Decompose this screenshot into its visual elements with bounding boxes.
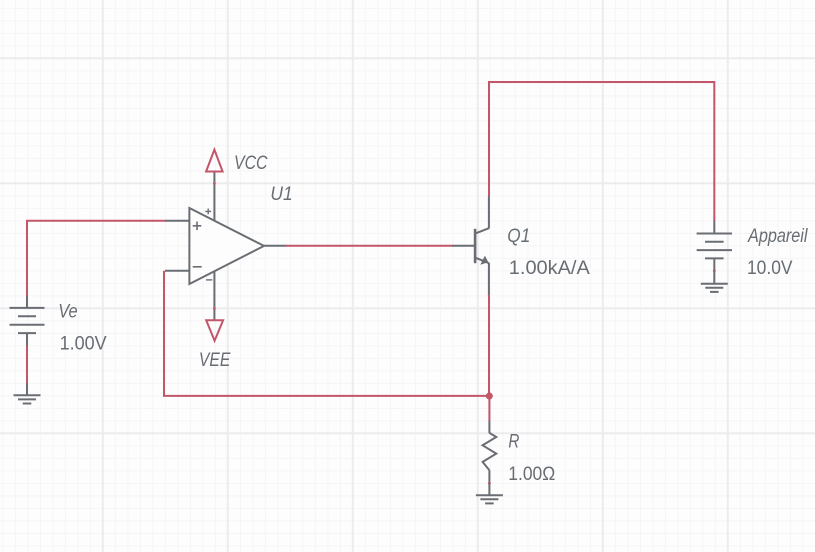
ground below Ve: [14, 383, 41, 403]
svg-text:1.00V: 1.00V: [60, 333, 107, 354]
svg-text:R: R: [508, 432, 519, 453]
node resistor bottom terminal: [488, 482, 491, 485]
svg-text:U1: U1: [270, 184, 292, 205]
transistor Q1: [452, 196, 489, 296]
svg-text:VCC: VCC: [234, 153, 268, 174]
svg-text:10.0V: 10.0V: [747, 258, 793, 279]
wire op-amp output to Q1 base: [286, 245, 453, 247]
power flag VEE: [206, 307, 223, 341]
wire Ve positive to op-amp non-inverting input: [27, 221, 166, 297]
power flag VCC: [206, 150, 223, 185]
ground below Appareil: [701, 271, 728, 292]
wire feedback from op-amp inverting input to emitter node: [164, 271, 489, 396]
voltage source Ve: [10, 296, 45, 346]
wire node to resistor R: [488, 396, 490, 422]
battery Appareil: [697, 221, 732, 271]
svg-text:1.00Ω: 1.00Ω: [508, 464, 555, 485]
wire Q1 collector to Appareil positive (top rail): [489, 82, 714, 221]
svg-text:Appareil: Appareil: [747, 226, 808, 247]
resistor R: [483, 421, 497, 484]
svg-text:VEE: VEE: [199, 350, 231, 371]
svg-text:Ve: Ve: [58, 301, 77, 322]
node Appareil negative terminal: [713, 269, 716, 272]
op-amp U1: [165, 172, 286, 321]
svg-text:1.00kA/A: 1.00kA/A: [509, 258, 590, 279]
node junction emitter / feedback / R: [486, 393, 493, 400]
ground below R: [476, 483, 503, 503]
svg-text:Q1: Q1: [507, 226, 530, 247]
wire Q1 emitter to node: [488, 295, 490, 396]
wire Ve negative to ground: [26, 345, 28, 384]
